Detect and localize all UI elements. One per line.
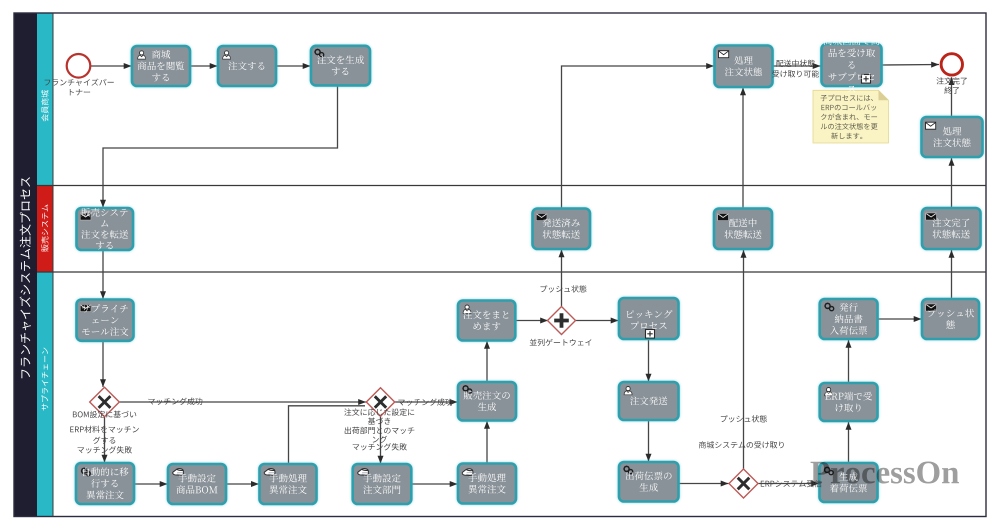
wire T2 to T3 xyxy=(276,65,311,67)
task 手動処理異常注文 xyxy=(260,464,317,504)
wire T11 to T5 xyxy=(562,66,715,209)
wire GW2 to T20 matching fail xyxy=(380,417,382,464)
icon user T31 xyxy=(825,388,833,396)
gateway parallel 並列ゲートウェイ xyxy=(548,307,576,335)
task 販売システム注文を転送する xyxy=(77,208,134,250)
task 手動設定商品BOM xyxy=(168,464,226,504)
icon envelope-send T11 xyxy=(536,213,547,220)
task text T17 xyxy=(176,474,217,494)
lane header: lane 3 サプライチェーン xyxy=(37,272,53,517)
gateway GW1 exclusive (BOM matching) xyxy=(90,387,120,417)
task text T26 xyxy=(626,471,672,491)
task text T29 xyxy=(830,303,867,335)
task 注文発送 xyxy=(619,382,679,420)
label 並列ゲートウェイ xyxy=(530,339,592,346)
task text T25 xyxy=(630,396,667,405)
task text T13 xyxy=(933,218,970,238)
task text T22 xyxy=(463,310,508,330)
wire T8 to end event xyxy=(951,77,953,116)
label プッシュ状態 above parallel gateway xyxy=(541,285,587,292)
task text T10 xyxy=(81,208,128,250)
lane title サプライチェーン xyxy=(41,348,48,411)
wire T3 to T10 xyxy=(103,86,338,208)
labels GW3 プッシュ状態/商城システムの受け取り xyxy=(721,415,767,422)
icon hand T28 xyxy=(462,469,473,476)
task サプライチェーンモール注文 xyxy=(77,300,134,341)
label ERPシステム受信 xyxy=(761,480,822,487)
wire T13 to T8 xyxy=(951,158,953,208)
pool title フランチャイズシステム注文プロセス xyxy=(20,177,31,378)
lane title 会員商城 xyxy=(41,90,48,121)
icon hand T18 xyxy=(264,469,275,476)
task text T6 subprocess xyxy=(823,36,879,92)
icon user T25 xyxy=(624,387,632,395)
label 配送中状態受け取り可能 xyxy=(772,60,819,78)
wire T29 to T30 xyxy=(878,318,922,320)
task 処理注文状態 2 (receive) xyxy=(922,117,983,157)
task 注文完了状態転送 xyxy=(922,208,981,249)
lane header: lane 1 会員商城 xyxy=(37,13,53,186)
wire parallel gateway to T24 xyxy=(576,320,619,322)
subprocess ピッキングプロセス xyxy=(619,298,679,339)
icon envelope-receive T5 xyxy=(719,51,729,58)
task text T1 xyxy=(138,50,185,82)
icon gears T26 xyxy=(623,466,632,474)
wire T12 to T5 xyxy=(742,88,744,209)
note text 子プロセス annotation xyxy=(821,95,878,140)
task 配送中状態転送 xyxy=(714,209,772,250)
pool header column (vertical title bar) xyxy=(14,13,37,517)
wire T10 to T14 xyxy=(102,250,104,299)
label end event 注文完了終了 xyxy=(937,77,967,94)
lane title 販売システム xyxy=(41,205,48,252)
wire T31 to T29 xyxy=(848,340,850,383)
lane header: lane 2 販売システム xyxy=(37,186,53,273)
task 注文する xyxy=(218,46,276,86)
icon envelope-send T30 xyxy=(926,304,937,311)
task text T30 xyxy=(928,309,974,329)
wire T1 to T2 xyxy=(190,65,218,67)
label マッチング成功 GW2 xyxy=(398,398,452,405)
task 商城商品を閲覧する xyxy=(132,46,190,86)
task text T21 xyxy=(464,391,510,411)
icon gears T16 xyxy=(81,468,90,476)
icon hand T17 xyxy=(173,469,184,476)
task text T16 xyxy=(83,467,128,499)
task 出荷伝票の生成 xyxy=(619,462,679,502)
wire T22 to parallel gateway xyxy=(515,320,548,322)
task プッシュ状態 (send) xyxy=(922,299,979,339)
task 注文を生成する xyxy=(311,46,370,86)
icon envelope-receive T8 xyxy=(926,122,936,129)
labels below GW1 xyxy=(70,411,139,454)
task 注文をまとめます xyxy=(458,301,515,341)
icon hand T20 xyxy=(358,469,369,476)
wire T26 to GW3 xyxy=(679,483,729,485)
task 販売注文の生成 xyxy=(458,382,516,421)
icon envelope-send T14 xyxy=(80,304,91,311)
wire T17 to T18 xyxy=(226,483,259,485)
task text T11 xyxy=(543,218,580,238)
icon user T1 xyxy=(138,51,146,59)
task text T24 xyxy=(627,310,673,330)
task 自動的に移行する異常注文 xyxy=(76,463,134,504)
task text T3 xyxy=(317,55,364,75)
task text T20 xyxy=(363,474,400,494)
icon subprocess plus marker T24 xyxy=(646,330,655,339)
wire T21 to T22 xyxy=(486,341,488,382)
icon gears T29 xyxy=(824,303,833,311)
wire T32 to T31 xyxy=(848,422,850,463)
wire start to T1 xyxy=(91,65,132,67)
wire parallel gateway to T11 push xyxy=(561,250,563,307)
task 発行納品書入荷伝票 xyxy=(820,299,878,339)
start event circle xyxy=(67,54,91,78)
task 生成着荷伝票 xyxy=(820,463,878,502)
label マッチング成功 GW1 xyxy=(148,398,202,405)
wire T6 to end event xyxy=(882,64,940,67)
wire T25 to T26 xyxy=(648,421,650,462)
task 発送済み状態転送 xyxy=(533,209,591,250)
wire T5 to subprocess T6 xyxy=(773,65,821,67)
icon gears T21 xyxy=(462,385,471,393)
gateway GW3 exclusive (ERP receive) xyxy=(729,469,758,498)
task text T5 xyxy=(725,56,762,76)
task text T2 xyxy=(228,61,264,70)
wire GW3 to T12 xyxy=(743,250,745,470)
lane header separator line xyxy=(52,13,54,517)
wire T14 to GW1 xyxy=(102,341,104,387)
labels below GW2 xyxy=(344,408,414,450)
task text T8 xyxy=(933,127,970,147)
task text T28 手動処理異常注文 xyxy=(468,473,506,493)
subprocess 商城画面で商品を受け取る xyxy=(822,44,882,86)
icon user T22 xyxy=(463,305,471,313)
task text T12 xyxy=(724,218,761,238)
icon envelope-send T12 xyxy=(718,213,729,220)
yellow annotation note 子プロセス xyxy=(813,90,889,143)
end event circle xyxy=(941,54,962,75)
wire GW1 to T16 matching fail xyxy=(104,417,106,463)
lane divider line 1 xyxy=(37,185,986,187)
task text T31 xyxy=(825,392,872,412)
task text T18 xyxy=(269,474,307,494)
wire T20 to T28 xyxy=(412,483,458,485)
wire T18 to GW2 xyxy=(289,406,366,464)
lane divider line 2 xyxy=(37,271,986,273)
icon subprocess plus marker T6 xyxy=(862,75,871,84)
wire GW3 to T32 erp received xyxy=(759,483,820,485)
icon gears T32 xyxy=(824,467,833,475)
icon envelope-send T13 xyxy=(926,213,937,220)
wire T16 to T17 xyxy=(134,483,168,485)
task ERP端で受け取り xyxy=(820,383,878,421)
task 処理注文状態 (receive) xyxy=(715,46,773,88)
icon envelope-send T10 xyxy=(80,213,91,220)
gateway GW2 exclusive (department matching) xyxy=(366,388,394,416)
task 手動設定注文部門 xyxy=(353,464,412,504)
label start event フランチャイズパートナー xyxy=(45,79,114,96)
task text T32 xyxy=(830,472,867,492)
watermark ProcessOn xyxy=(811,461,959,483)
wire T30 to T13 xyxy=(951,250,953,299)
wire T28 to T21 xyxy=(486,421,488,463)
icon user T2 xyxy=(223,51,231,59)
icon gears T3 xyxy=(314,49,323,57)
wire T24 to T25 xyxy=(648,340,650,382)
wire GW2 to T21 matching success xyxy=(395,401,458,403)
task 手動処理異常注文 2 xyxy=(458,464,516,504)
task text T14 xyxy=(82,304,129,336)
wire GW1 to GW2 matching success xyxy=(120,401,367,403)
